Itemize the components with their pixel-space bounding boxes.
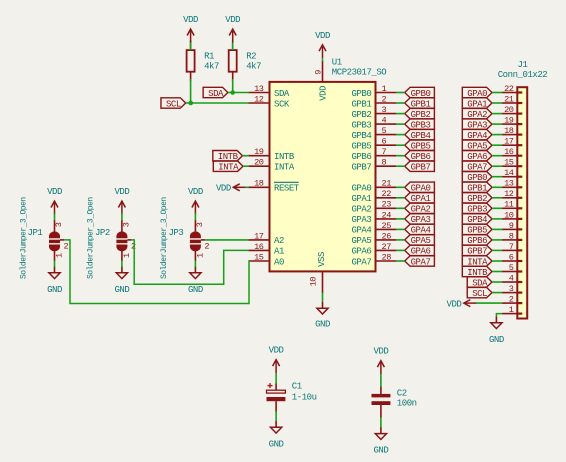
label GPB0 at U1 (405, 87, 435, 99)
svg-text:4k7: 4k7 (246, 62, 261, 72)
pin 3 GPB2 of U1 (351, 105, 396, 120)
label GPA1 at U1 (405, 193, 435, 205)
pin 27 GPA6 of U1 (351, 242, 396, 257)
svg-text:VDD: VDD (114, 187, 129, 197)
solder jumper JP3 SolderJumper_3_Open (168, 220, 209, 261)
svg-text:4: 4 (509, 273, 514, 283)
svg-text:14: 14 (504, 168, 514, 178)
wire U1 GPA2 (396, 207, 405, 209)
svg-text:19: 19 (504, 116, 514, 126)
svg-text:GPA0: GPA0 (351, 184, 371, 194)
pin 4 of J1 (502, 273, 522, 283)
svg-text:19: 19 (254, 147, 264, 157)
pin 6 GPB5 of U1 (351, 137, 396, 152)
power VDD at RESET (216, 184, 246, 194)
label GPA4 at U1 (405, 224, 435, 236)
label GPB2 at U1 (405, 108, 435, 120)
svg-text:2: 2 (204, 242, 209, 252)
svg-text:6: 6 (382, 137, 387, 147)
svg-text:INTA: INTA (274, 163, 295, 173)
svg-text:13: 13 (504, 179, 514, 189)
junction SCL/R1 (189, 101, 194, 106)
svg-text:VSS: VSS (317, 252, 327, 267)
svg-text:VDD: VDD (225, 15, 240, 25)
svg-text:8: 8 (382, 158, 387, 168)
svg-text:VDD: VDD (269, 346, 284, 356)
wire JP2 pin 2 to U1 A1 (131, 240, 248, 284)
wire U1 GPA3 (396, 218, 405, 220)
wire U1 GPB3 (396, 123, 405, 125)
pin 18 of J1 (502, 126, 522, 136)
svg-text:C1: C1 (292, 381, 302, 391)
svg-text:GPB4: GPB4 (351, 131, 371, 141)
svg-text:10: 10 (308, 277, 318, 287)
svg-text:3: 3 (54, 222, 64, 227)
wire J1 GPA3 (492, 123, 502, 125)
svg-text:VDD: VDD (315, 31, 330, 41)
svg-text:10: 10 (504, 210, 514, 220)
wire U1 GPA6 (396, 249, 405, 251)
svg-text:VDD: VDD (373, 347, 388, 357)
wire J1 GPB5 (492, 228, 502, 230)
pin 21 GPA0 of U1 (351, 179, 396, 194)
label GPA0 at J1 (462, 87, 492, 99)
svg-text:GND: GND (315, 320, 330, 330)
wire J1 SDA (492, 281, 502, 283)
wire JP1 pin 2 to U1 A0 (64, 240, 250, 304)
svg-text:VDD: VDD (216, 184, 231, 194)
wire U1 GPB1 (396, 102, 405, 104)
svg-text:1: 1 (509, 305, 514, 315)
svg-text:SolderJumper_3_Open: SolderJumper_3_Open (87, 197, 96, 279)
wire VDD to R1 (190, 43, 192, 51)
label GPA5 at U1 (405, 235, 435, 247)
svg-text:J1: J1 (518, 60, 528, 70)
svg-text:GND: GND (489, 335, 504, 345)
svg-text:JP1: JP1 (28, 228, 43, 238)
label GPA3 at U1 (405, 214, 435, 226)
solder jumper JP1 SolderJumper_3_Open (28, 220, 69, 261)
pin 10 of J1 (502, 210, 522, 220)
svg-text:5: 5 (509, 263, 514, 273)
resistor R1 4k7 (187, 41, 219, 82)
power GND below J1 (489, 317, 504, 345)
label GPA3 at J1 (462, 119, 492, 130)
solder jumper JP2 SolderJumper_3_Open (95, 220, 136, 261)
wire J1 pin 1 to GND (496, 314, 502, 317)
svg-text:JP2: JP2 (95, 228, 110, 238)
pin 8 GPB7 of U1 (351, 158, 396, 173)
wire VDD to R2 (232, 43, 234, 51)
wire J1 GPA4 (492, 134, 502, 136)
svg-text:7: 7 (509, 242, 514, 252)
wire VDD to C2 (380, 374, 382, 387)
label GPB5 at J1 (462, 224, 492, 236)
svg-text:16: 16 (254, 242, 264, 252)
wire J1 GPB2 (492, 197, 502, 199)
power GND below C1 (269, 421, 284, 449)
label SDA (203, 87, 228, 99)
pin 16 of J1 (502, 147, 522, 157)
svg-text:GND: GND (47, 285, 62, 295)
wire J1 GPB1 (492, 186, 502, 188)
capacitor C2 100n (372, 386, 417, 418)
svg-text:12: 12 (254, 94, 264, 104)
svg-text:SCL: SCL (166, 99, 181, 109)
svg-text:15: 15 (504, 158, 514, 168)
pin 13 of J1 (502, 179, 522, 189)
svg-text:5: 5 (382, 126, 387, 136)
wire JP3 pin 2 to U1 A2 (205, 239, 249, 241)
wire U1 GPB7 (396, 165, 405, 167)
pin 22 of J1 (502, 84, 522, 94)
svg-text:GND: GND (188, 285, 203, 295)
wire U1 GPB6 (396, 155, 405, 157)
label GPA1 at J1 (462, 98, 492, 110)
wire U1 GPB2 (396, 113, 405, 115)
svg-text:A0: A0 (274, 257, 284, 267)
power GND below U1 (315, 302, 330, 330)
label GPA2 at J1 (462, 108, 492, 120)
pin 28 GPA7 of U1 (351, 252, 396, 267)
svg-text:GPA7: GPA7 (351, 257, 371, 267)
svg-text:2: 2 (64, 242, 69, 252)
svg-text:2: 2 (131, 242, 136, 252)
label GPA6 at U1 (405, 245, 435, 257)
svg-text:GND: GND (269, 439, 284, 449)
svg-text:GPB0: GPB0 (351, 89, 371, 99)
svg-text:23: 23 (382, 200, 392, 210)
svg-text:A2: A2 (274, 236, 284, 246)
power GND below C2 (373, 427, 388, 455)
svg-text:17: 17 (254, 231, 264, 241)
pin 14 of J1 (502, 168, 522, 178)
svg-text:25: 25 (382, 221, 392, 231)
pin 2 of J1 (502, 295, 522, 305)
power GND below JP3 (188, 267, 203, 295)
svg-text:1-10u: 1-10u (292, 393, 317, 403)
svg-text:SCK: SCK (274, 99, 290, 109)
svg-text:20: 20 (504, 105, 514, 115)
power VDD above C2 (373, 347, 388, 374)
svg-text:18: 18 (504, 126, 514, 136)
pin 10 VSS of U1 (308, 252, 327, 293)
power VDD above JP1 (47, 187, 62, 214)
wire VDD to U1 pin 9 (322, 58, 324, 61)
wire J1 INTA (492, 260, 502, 262)
wire J1 GPA1 (492, 102, 502, 104)
wire R1 to SCL net (190, 79, 192, 103)
pin 6 of J1 (502, 252, 522, 262)
wire J1 GPB3 (492, 207, 502, 209)
svg-text:11: 11 (504, 200, 514, 210)
wire J1 INTB (492, 271, 502, 273)
pin 19 INTB of U1 (249, 147, 295, 162)
wire J1 GPA5 (492, 144, 502, 146)
label INTB (213, 151, 243, 163)
power VDD above U1 (315, 31, 330, 58)
pin 5 of J1 (502, 263, 522, 273)
label GPB1 at J1 (462, 182, 492, 194)
pin 7 GPB6 of U1 (351, 147, 396, 162)
pin 1 of J1 (502, 305, 522, 315)
wire J1 GPB7 (492, 249, 502, 251)
svg-text:21: 21 (382, 179, 392, 189)
pin 17 of J1 (502, 137, 522, 147)
label GPB7 at J1 (462, 245, 492, 257)
wire R2 to SDA net (232, 79, 234, 93)
svg-text:GPB3: GPB3 (351, 120, 371, 130)
label GPA5 at J1 (462, 140, 492, 152)
wire J1 GPA6 (492, 155, 502, 157)
pin 20 of J1 (502, 105, 522, 115)
svg-text:A1: A1 (274, 247, 284, 257)
svg-text:R1: R1 (204, 52, 214, 62)
label GPB5 at U1 (405, 140, 435, 152)
svg-text:RESET: RESET (274, 184, 300, 194)
svg-text:3: 3 (122, 222, 132, 227)
pin 9 of J1 (502, 221, 522, 231)
wire U1 GPA4 (396, 228, 405, 230)
svg-text:Conn_01x22: Conn_01x22 (498, 70, 548, 80)
wire VDD to J1 pin 2 (476, 302, 502, 304)
svg-text:13: 13 (254, 84, 264, 94)
svg-text:MCP23017_SO: MCP23017_SO (332, 68, 387, 78)
pin 25 GPA4 of U1 (351, 221, 396, 236)
svg-text:17: 17 (504, 137, 514, 147)
label GPA7 at U1 (405, 256, 435, 267)
svg-text:U1: U1 (332, 58, 342, 68)
label GPB7 at U1 (405, 161, 435, 173)
svg-text:SDA: SDA (208, 89, 224, 99)
svg-text:3: 3 (382, 105, 387, 115)
power GND below JP1 (47, 267, 62, 295)
pin 12 of J1 (502, 189, 522, 199)
label GPA6 at J1 (462, 151, 492, 163)
label GPB4 at J1 (462, 214, 492, 226)
power VDD above C1 (269, 346, 284, 373)
wire J1 GPA0 (492, 92, 502, 94)
svg-text:GPA3: GPA3 (351, 215, 371, 225)
svg-text:1: 1 (54, 253, 64, 258)
pin 12 SCK of U1 (249, 94, 290, 109)
wire SCL to U1 SCK (186, 102, 249, 104)
wire U1 GPB4 (396, 134, 405, 136)
wire J1 GPA2 (492, 113, 502, 115)
label GPB4 at U1 (405, 129, 435, 141)
label SCL (161, 98, 186, 110)
resistor R2 4k7 (229, 41, 261, 82)
svg-text:1: 1 (122, 253, 132, 258)
wire U1 GPA7 (396, 260, 405, 262)
svg-text:VDD: VDD (47, 187, 62, 197)
svg-text:SCL: SCL (472, 289, 487, 299)
svg-text:JP3: JP3 (168, 228, 183, 238)
svg-text:20: 20 (254, 158, 264, 168)
wire U1 GPA0 (396, 186, 405, 188)
label GPB0 at J1 (462, 172, 492, 184)
wire JP2 pin 1 to GND (121, 261, 123, 268)
svg-text:GPB1: GPB1 (351, 99, 371, 109)
pin 3 of J1 (502, 284, 522, 294)
pin 15 A0 of U1 (249, 252, 284, 267)
svg-text:22: 22 (504, 84, 514, 94)
svg-text:12: 12 (504, 189, 514, 199)
pin 5 GPB4 of U1 (351, 126, 396, 141)
label GPB1 at U1 (405, 98, 435, 110)
power GND below JP2 (114, 267, 129, 295)
svg-text:100n: 100n (397, 399, 417, 409)
svg-text:3: 3 (195, 222, 205, 227)
svg-text:GPA5: GPA5 (351, 236, 371, 246)
wire SDA to U1 SDA (228, 92, 249, 94)
svg-text:24: 24 (382, 210, 392, 220)
svg-text:3: 3 (509, 284, 514, 294)
wire INTA (243, 165, 249, 167)
svg-text:GPB6: GPB6 (351, 152, 371, 162)
svg-text:GND: GND (373, 446, 388, 456)
pin 21 of J1 (502, 94, 522, 104)
pin 17 A2 of U1 (249, 231, 284, 246)
wire VDD to RESET (245, 186, 249, 188)
svg-text:GPA7: GPA7 (411, 257, 431, 267)
label INTB at J1 (462, 266, 492, 278)
svg-text:27: 27 (382, 242, 392, 252)
wire INTB (243, 155, 249, 157)
power VDD above JP3 (188, 187, 203, 214)
svg-text:GPA4: GPA4 (351, 226, 371, 236)
capacitor C1 1-10u (267, 381, 317, 412)
wire VDD to JP3 pin 3 (194, 213, 196, 221)
svg-text:16: 16 (504, 147, 514, 157)
label GPB3 at J1 (462, 203, 492, 215)
pin 11 of J1 (502, 200, 522, 210)
svg-text:GPB7: GPB7 (351, 163, 371, 173)
pin 23 GPA2 of U1 (351, 200, 396, 215)
wire JP3 pin 1 to GND (194, 261, 196, 268)
pin 15 of J1 (502, 158, 522, 168)
svg-text:21: 21 (504, 94, 514, 104)
svg-text:R2: R2 (246, 52, 256, 62)
svg-text:26: 26 (382, 231, 392, 241)
svg-text:8: 8 (509, 231, 514, 241)
svg-text:GPB7: GPB7 (411, 163, 431, 173)
svg-text:4k7: 4k7 (204, 62, 219, 72)
svg-text:1: 1 (195, 253, 205, 258)
label GPA0 at U1 (405, 182, 435, 194)
pin 8 of J1 (502, 231, 522, 241)
svg-text:1: 1 (382, 84, 387, 94)
svg-text:2: 2 (382, 94, 387, 104)
svg-text:INTA: INTA (218, 163, 239, 173)
svg-text:18: 18 (254, 179, 264, 189)
wire J1 SCL (492, 292, 502, 294)
wire VDD to JP2 pin 3 (121, 213, 123, 221)
svg-text:VDD: VDD (318, 86, 328, 101)
svg-text:SolderJumper_3_Open: SolderJumper_3_Open (160, 197, 169, 279)
junction SDA/R2 (230, 90, 235, 95)
label SDA at J1 (467, 277, 492, 289)
svg-text:INTB: INTB (274, 152, 295, 162)
IC U1 MCP23017_SO (270, 58, 387, 272)
svg-text:VDD: VDD (183, 15, 198, 25)
label GPA7 at J1 (462, 161, 492, 173)
wire C1 to GND (275, 411, 277, 422)
pin 9 VDD of U1 (313, 61, 328, 101)
label GPB6 at U1 (405, 151, 435, 163)
svg-text:7: 7 (382, 147, 387, 157)
wire VDD to C1 (275, 373, 277, 384)
svg-text:6: 6 (509, 252, 514, 262)
wire J1 GPA7 (492, 165, 502, 167)
power VDD above R2 (225, 15, 240, 42)
pin 19 of J1 (502, 116, 522, 126)
pin 7 of J1 (502, 242, 522, 252)
wire U1 GPA5 (396, 239, 405, 241)
wire U1 GPB5 (396, 144, 405, 146)
svg-text:GND: GND (114, 285, 129, 295)
pin 26 GPA5 of U1 (351, 231, 396, 246)
wire VDD to JP1 pin 3 (54, 213, 56, 221)
power VDD at J1 pin 2 (447, 299, 477, 309)
svg-text:4: 4 (382, 116, 387, 126)
svg-text:C2: C2 (397, 389, 407, 399)
wire C2 to GND (380, 417, 382, 428)
label INTA (213, 161, 243, 173)
pin 22 GPA1 of U1 (351, 189, 396, 204)
power VDD above JP2 (114, 187, 129, 214)
wire J1 GPB4 (492, 218, 502, 220)
label SCL at J1 (467, 287, 492, 299)
label GPB3 at U1 (405, 119, 435, 130)
svg-text:9: 9 (509, 221, 514, 231)
pin 24 GPA3 of U1 (351, 210, 396, 225)
svg-text:GPA6: GPA6 (351, 247, 371, 257)
label GPB2 at J1 (462, 193, 492, 205)
svg-text:GPB5: GPB5 (351, 142, 371, 152)
pin 4 GPB3 of U1 (351, 116, 396, 131)
pin 16 A1 of U1 (249, 242, 284, 257)
svg-text:9: 9 (313, 70, 323, 75)
connector J1 Conn_01x22 body (498, 60, 548, 319)
pin 13 SDA of U1 (249, 84, 290, 99)
pin 1 GPB0 of U1 (351, 84, 396, 99)
svg-text:SDA: SDA (274, 89, 290, 99)
svg-text:GPA2: GPA2 (351, 205, 371, 215)
svg-text:GPA1: GPA1 (351, 194, 371, 204)
svg-text:GPB2: GPB2 (351, 110, 371, 120)
pin 20 INTA of U1 (249, 158, 295, 173)
wire JP1 pin 1 to GND (54, 261, 56, 268)
svg-text:15: 15 (254, 252, 264, 262)
pin 18 RESET of U1 (249, 179, 300, 194)
svg-text:VDD: VDD (447, 299, 462, 309)
svg-text:2: 2 (509, 295, 514, 305)
svg-text:28: 28 (382, 252, 392, 262)
pin 2 GPB1 of U1 (351, 94, 396, 109)
label GPA2 at U1 (405, 203, 435, 215)
wire J1 GPB0 (492, 176, 502, 178)
wire J1 GPB6 (492, 239, 502, 241)
wire U1 VSS to GND (322, 293, 324, 303)
svg-text:SolderJumper_3_Open: SolderJumper_3_Open (19, 197, 28, 279)
svg-text:22: 22 (382, 189, 392, 199)
svg-text:VDD: VDD (188, 187, 203, 197)
label GPA4 at J1 (462, 129, 492, 141)
label INTA at J1 (462, 256, 492, 267)
wire U1 GPB0 (396, 92, 405, 94)
power VDD above R1 (183, 15, 198, 42)
